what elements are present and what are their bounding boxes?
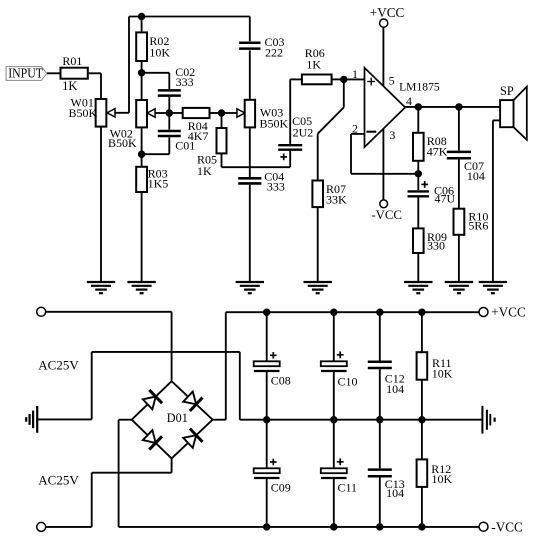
svg-text:INPUT: INPUT: [8, 66, 43, 81]
svg-text:B50K: B50K: [69, 106, 98, 120]
svg-text:C11: C11: [338, 481, 358, 495]
svg-text:AC25V: AC25V: [38, 357, 79, 372]
svg-text:+VCC: +VCC: [370, 5, 405, 20]
svg-text:222: 222: [265, 45, 283, 59]
svg-text:C10: C10: [338, 374, 358, 388]
svg-text:47U: 47U: [435, 192, 456, 206]
svg-text:4: 4: [406, 94, 412, 108]
svg-text:5: 5: [389, 73, 395, 87]
svg-text:10K: 10K: [432, 366, 453, 380]
svg-text:LM1875: LM1875: [399, 80, 440, 93]
svg-text:1K: 1K: [197, 164, 212, 178]
svg-text:2U2: 2U2: [293, 125, 314, 139]
svg-text:SP: SP: [500, 84, 514, 98]
svg-text:C08: C08: [271, 374, 291, 388]
svg-text:47K: 47K: [427, 144, 448, 158]
svg-text:C09: C09: [271, 481, 291, 495]
svg-text:1K: 1K: [306, 57, 321, 71]
svg-text:D01: D01: [167, 411, 188, 425]
svg-text:-VCC: -VCC: [491, 520, 523, 535]
svg-text:104: 104: [386, 486, 404, 500]
svg-text:333: 333: [176, 75, 194, 89]
svg-text:+VCC: +VCC: [491, 304, 526, 319]
svg-text:104: 104: [467, 169, 485, 183]
svg-text:-VCC: -VCC: [371, 208, 402, 222]
svg-text:33K: 33K: [326, 192, 347, 206]
svg-text:AC25V: AC25V: [38, 472, 79, 487]
svg-text:1K: 1K: [62, 79, 77, 93]
svg-text:4K7: 4K7: [188, 129, 209, 143]
svg-text:1K5: 1K5: [148, 176, 169, 190]
svg-text:3: 3: [389, 128, 395, 142]
svg-text:1: 1: [352, 67, 358, 81]
svg-text:104: 104: [386, 382, 404, 396]
svg-text:333: 333: [267, 179, 285, 193]
svg-text:B50K: B50K: [108, 136, 137, 150]
svg-text:10K: 10K: [149, 46, 170, 60]
svg-text:B50K: B50K: [260, 117, 289, 131]
svg-text:5R6: 5R6: [468, 218, 488, 232]
svg-text:330: 330: [427, 239, 445, 253]
svg-text:R01: R01: [62, 54, 82, 68]
svg-text:10K: 10K: [432, 472, 453, 486]
